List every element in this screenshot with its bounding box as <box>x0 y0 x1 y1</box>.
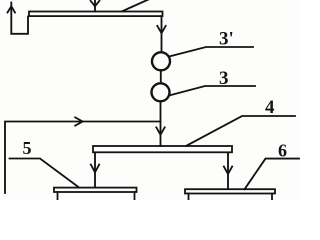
wire: leader line cut off at top edge <box>122 0 150 11</box>
label 3 leader <box>169 86 255 96</box>
pump U3' (upper circle) <box>152 52 170 70</box>
wire: vertical line from pump 3 to header with mid arrow <box>156 101 164 146</box>
wire: drop line with arrow into tank 5 <box>91 153 99 188</box>
tank 6: right box with lid <box>185 189 275 200</box>
label 5 leader <box>10 159 80 188</box>
wire: connector between the two pumps <box>160 70 162 83</box>
label 3' leader <box>170 47 253 56</box>
label 6 leader <box>245 159 300 190</box>
svg-text:5: 5 <box>23 138 32 158</box>
wire: feed line with down arrow into top bar <box>91 0 100 11</box>
svg-text:3: 3 <box>219 68 229 89</box>
header 4: distribution bar <box>93 146 232 152</box>
pump U3 (lower circle) <box>152 83 170 101</box>
vessel 1: top horizontal bar <box>29 12 163 17</box>
svg-text:3': 3' <box>219 29 234 50</box>
tank 5: left box with lid <box>54 188 137 200</box>
svg-text:6: 6 <box>278 141 287 161</box>
wire: drop line with arrow into tank 6 <box>224 153 232 190</box>
svg-text:4: 4 <box>265 97 275 118</box>
wire: top-left outlet line with up arrow <box>8 3 29 34</box>
label 4 leader <box>186 116 295 146</box>
wire: recycle return line with right arrow <box>5 117 160 193</box>
wire: vertical line from bar to pump 3' with down arrow <box>157 16 165 52</box>
